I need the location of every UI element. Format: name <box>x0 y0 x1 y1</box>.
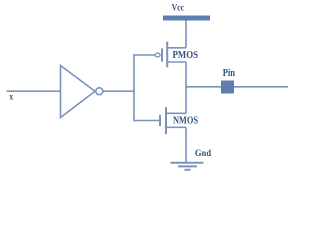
pin marker square <box>221 81 234 94</box>
transistor Q2 NMOS drain lead <box>166 112 186 114</box>
svg-text:Vcc: Vcc <box>172 3 184 13</box>
svg-text:x: x <box>9 93 13 103</box>
transistor Q2 NMOS source lead <box>166 126 186 128</box>
wire gate node to NMOS gate bar <box>134 120 160 122</box>
svg-text:NMOS: NMOS <box>173 115 198 126</box>
wire output node to right edge <box>186 86 288 88</box>
transistor Q1 PMOS channel bar <box>166 42 168 68</box>
inverter U1 output bubble <box>96 88 103 95</box>
wire gate node to PMOS gate bubble <box>134 54 155 56</box>
ground bar 3 <box>185 169 191 171</box>
svg-text:Pin: Pin <box>223 68 236 79</box>
transistor Q2 NMOS channel bar <box>165 107 167 134</box>
transistor Q1 PMOS gate bar <box>161 48 163 61</box>
wire inverter output to gate node <box>103 90 134 92</box>
node A: input wire x <box>7 90 61 92</box>
wire PMOS drain to NMOS drain (output node) <box>185 62 187 113</box>
svg-text:Gnd: Gnd <box>195 148 212 159</box>
wire Vcc rail to PMOS source lead <box>185 21 187 48</box>
inverter U1 triangle <box>61 66 96 118</box>
wire NMOS source to ground <box>185 127 187 162</box>
wire gate node vertical <box>133 54 135 121</box>
ground bar 1 <box>171 162 204 164</box>
transistor Q1 PMOS drain lead <box>167 61 186 63</box>
transistor Q1 PMOS source lead <box>167 47 186 49</box>
power rail Vcc <box>163 16 210 21</box>
transistor Q2 NMOS gate bar <box>159 115 161 126</box>
ground bar 2 <box>178 165 197 167</box>
transistor Q1 PMOS gate bubble <box>155 53 160 57</box>
svg-text:PMOS: PMOS <box>173 50 199 61</box>
